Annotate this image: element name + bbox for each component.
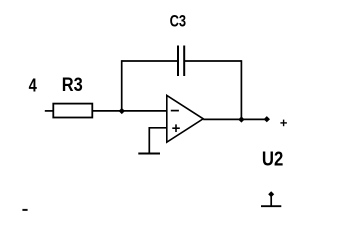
node output terminal (diamond) bbox=[264, 116, 270, 122]
resistor R3 body bbox=[53, 104, 92, 118]
node junction right (diamond) bbox=[238, 116, 244, 122]
wire op-amp output bbox=[203, 118, 267, 120]
svg-text:R3: R3 bbox=[62, 75, 83, 96]
wire input stub left of R3 bbox=[45, 110, 54, 112]
wire feedback left vertical bbox=[121, 60, 123, 111]
wire R3 output to op-amp minus input bbox=[92, 110, 167, 112]
ground terminal stem bbox=[270, 194, 272, 206]
op-amp U2 triangle bbox=[167, 95, 203, 142]
ground terminal bar bbox=[261, 205, 281, 207]
wire top feedback rail left segment bbox=[122, 60, 179, 62]
op-amp plus marker bbox=[172, 124, 180, 132]
wire top feedback rail right segment bbox=[184, 60, 242, 62]
wire plus input vertical down bbox=[148, 127, 150, 154]
op-amp minus marker bbox=[171, 110, 179, 112]
wire plus input horizontal bbox=[149, 127, 167, 129]
wire feedback right vertical bbox=[240, 60, 242, 119]
node junction left (diamond) bbox=[119, 108, 125, 114]
ground bar bbox=[138, 153, 160, 155]
ground terminal bottom right: diamond bbox=[268, 191, 274, 197]
svg-text:U2: U2 bbox=[262, 149, 283, 171]
stray mark bottom left bbox=[22, 209, 27, 211]
capacitor C3 plates bbox=[178, 46, 184, 77]
svg-text:C3: C3 bbox=[170, 13, 187, 31]
label + output polarity bbox=[280, 120, 287, 127]
svg-text:4: 4 bbox=[29, 76, 37, 96]
